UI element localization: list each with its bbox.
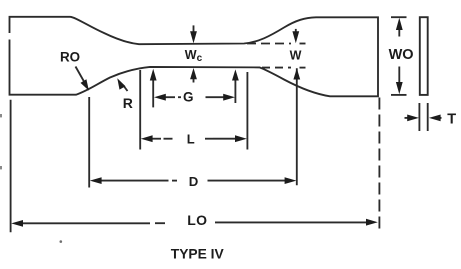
D extension line right (also carries W lower arrow) [296,68,298,185]
D dimension horizontal line [101,180,169,182]
svg-text:D: D [189,174,199,189]
LO extension line right (dashed, tab edge extended) [378,98,380,232]
W down arrowhead [292,31,299,43]
R leader arrowhead [117,78,125,89]
WO top tick [391,16,407,18]
G dimension right vertical arrow shaft [234,79,236,103]
T extension line right [427,103,429,131]
RO leader arrowhead [81,79,89,90]
L right arrowhead [235,135,247,142]
svg-text:TYPE IV: TYPE IV [171,247,225,262]
svg-text:R: R [123,95,133,111]
svg-text:W: W [290,48,302,62]
Wc dimension arrow above (down) [193,25,195,33]
G horizontal right arrowhead [223,94,235,101]
L extension line left [139,70,141,150]
WO arrow shafts [398,29,400,37]
WO up arrowhead [396,18,403,30]
G right vertical arrowhead [232,69,239,80]
T extension line left [418,103,420,131]
L extension line right [246,72,248,150]
G dimension left vertical arrow shaft [152,79,154,107]
svg-text:G: G [183,90,194,105]
D left arrowhead [90,177,102,184]
LO right arrowhead [366,219,378,226]
svg-text:WO: WO [389,47,414,63]
scan artifact: left edge break (white) [8,33,11,40]
scan artifact: margin tick 1 [0,114,2,117]
W up arrowhead [293,68,300,79]
Wc up arrowhead [190,68,197,79]
svg-text:T: T [447,111,456,127]
D extension line left [88,97,90,188]
LO left arrowhead [11,220,23,227]
LO dimension horizontal line [23,222,151,224]
G horizontal left arrowhead [154,94,166,101]
RO leader arrow [76,67,85,82]
dashed extension of neck bottom edge (for W) [262,67,291,69]
svg-text:L: L [187,131,195,146]
T right arrowhead (points left) [429,115,441,122]
R leader arrow [123,85,128,91]
L left arrowhead [141,135,153,142]
WO down arrowhead [396,82,403,94]
dashed extension of neck top edge (for W) [247,43,291,45]
Wc dimension arrow below (up) [193,78,195,83]
G left vertical arrowhead [150,69,157,81]
T left arrowhead (points right) [407,115,419,122]
L dimension horizontal line [152,138,162,140]
W dimension arrow above (down) [295,29,297,34]
LO extension line left [10,100,12,233]
scan artifact: dot [60,240,63,243]
scan artifact: margin tick 2 [0,166,2,169]
WO bottom tick [391,94,407,96]
T arrow shafts [405,117,409,119]
G dimension horizontal line [164,96,175,98]
side view thin rectangle [420,17,428,95]
Wc down arrowhead [190,31,197,43]
svg-text:RO: RO [60,50,80,65]
specimen outline (dog-bone, Type IV) [10,17,379,97]
D right arrowhead [285,177,297,184]
svg-text:Wc: Wc [185,48,203,64]
svg-text:LO: LO [187,212,207,228]
